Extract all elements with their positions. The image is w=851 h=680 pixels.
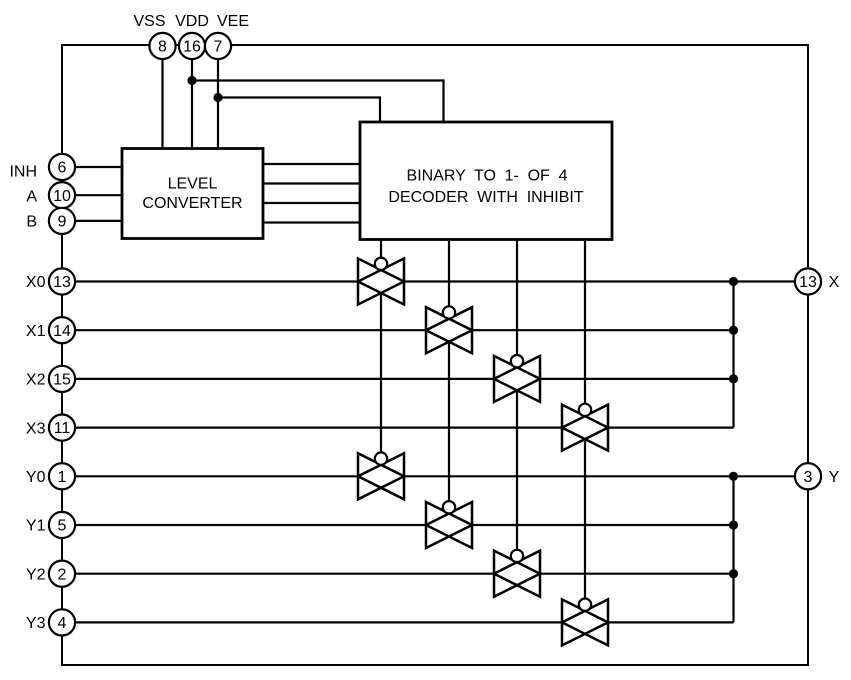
svg-text:X1: X1 <box>26 323 46 340</box>
svg-text:2: 2 <box>58 566 67 583</box>
junction Y bus row Y1 <box>729 520 738 529</box>
junction VEE branch <box>213 93 222 102</box>
wire VDD branch to decoder <box>192 81 444 123</box>
wire decoder control column X0/Y0 <box>380 240 382 488</box>
junction X bus row X1 <box>729 326 738 335</box>
transmission gate X0 <box>358 258 404 305</box>
svg-text:CONVERTER: CONVERTER <box>142 195 242 212</box>
svg-text:9: 9 <box>58 214 67 231</box>
svg-text:A: A <box>26 188 37 205</box>
svg-text:6: 6 <box>58 160 67 177</box>
wire level converter to decoder 3 <box>263 202 360 204</box>
pin 9 B <box>49 208 75 234</box>
wire decoder control column X2/Y2 <box>516 240 518 586</box>
pin 13 X0 <box>49 268 75 294</box>
svg-text:INH: INH <box>9 164 37 181</box>
pin 8 VSS <box>149 33 175 59</box>
wire row X3 <box>75 427 734 429</box>
svg-text:8: 8 <box>158 39 167 56</box>
svg-text:LEVEL: LEVEL <box>168 176 218 193</box>
wire row Y1 <box>75 524 734 526</box>
wire level converter to decoder 1 <box>263 163 360 165</box>
wire row X2 <box>75 378 734 380</box>
wire row Y3 <box>75 621 734 623</box>
svg-text:X3: X3 <box>26 420 46 437</box>
junction X bus row X0 <box>729 277 738 286</box>
wire VEE branch to decoder <box>218 98 380 123</box>
svg-text:BINARY TO 1- OF 4: BINARY TO 1- OF 4 <box>407 168 568 185</box>
level converter block <box>122 149 263 239</box>
pin 5 Y1 <box>49 512 75 538</box>
svg-text:7: 7 <box>214 39 223 56</box>
svg-text:3: 3 <box>804 469 813 486</box>
svg-text:X: X <box>829 274 840 291</box>
svg-text:5: 5 <box>58 518 67 535</box>
binary to 1-of-4 decoder block <box>360 122 612 240</box>
wire A pin10 to level converter <box>75 194 122 196</box>
svg-text:Y2: Y2 <box>26 566 46 583</box>
svg-text:13: 13 <box>799 274 817 291</box>
wire row X1 <box>75 329 734 331</box>
svg-text:VDD: VDD <box>175 13 209 30</box>
svg-text:13: 13 <box>53 274 71 291</box>
transmission gate Y3 <box>562 599 608 646</box>
svg-text:11: 11 <box>54 420 71 437</box>
svg-text:15: 15 <box>53 372 71 389</box>
wire B pin9 to level converter <box>75 220 122 222</box>
svg-text:X2: X2 <box>26 372 46 389</box>
pin 10 A <box>49 182 75 208</box>
svg-text:VSS: VSS <box>133 13 165 30</box>
svg-text:Y: Y <box>829 469 840 486</box>
svg-text:X0: X0 <box>26 274 46 291</box>
pin 11 X3 <box>49 415 75 441</box>
svg-text:Y3: Y3 <box>26 615 46 632</box>
pin 16 VDD <box>179 33 205 59</box>
svg-text:DECODER WITH INHIBIT: DECODER WITH INHIBIT <box>388 189 583 206</box>
transmission gate X3 <box>562 404 608 451</box>
svg-text:B: B <box>26 214 37 231</box>
wire VSS pin8 to level converter <box>161 59 163 149</box>
wire Y output bus <box>732 476 734 622</box>
pin 6 INH <box>49 154 75 180</box>
transmission gate Y1 <box>426 501 472 548</box>
wire row Y0 <box>75 475 795 477</box>
svg-text:VEE: VEE <box>217 13 249 30</box>
wire level converter to decoder 2 <box>263 182 360 184</box>
wire level converter to decoder 4 <box>263 221 360 223</box>
transmission gate Y2 <box>494 550 540 597</box>
pin 7 VEE <box>205 33 231 59</box>
wire decoder control column X3/Y3 <box>584 240 586 634</box>
wire row X0 <box>75 280 795 282</box>
junction Y bus row Y0 <box>729 472 738 481</box>
pin 13 X common <box>795 268 821 294</box>
junction X bus row X2 <box>729 374 738 383</box>
svg-text:1: 1 <box>58 469 67 486</box>
pin 1 Y0 <box>49 463 75 489</box>
svg-text:14: 14 <box>53 323 71 340</box>
svg-text:4: 4 <box>58 615 67 632</box>
chip boundary <box>62 45 808 665</box>
pin 15 X2 <box>49 366 75 392</box>
wire INH pin6 to level converter <box>75 166 122 168</box>
wire X output bus <box>732 282 734 428</box>
transmission gate X1 <box>426 306 472 353</box>
pin 3 Y common <box>795 463 821 489</box>
transmission gate Y0 <box>358 452 404 499</box>
wire decoder control column X1/Y1 <box>448 240 450 537</box>
pin 14 X1 <box>49 317 75 343</box>
wire VEE pin7 to level converter <box>217 59 219 149</box>
transmission gate X2 <box>494 355 540 402</box>
pin 4 Y3 <box>49 609 75 635</box>
svg-text:Y1: Y1 <box>26 518 46 535</box>
svg-text:Y0: Y0 <box>26 469 46 486</box>
junction Y bus row Y2 <box>729 569 738 578</box>
junction VDD branch <box>187 76 196 85</box>
svg-text:16: 16 <box>183 39 201 56</box>
pin 2 Y2 <box>49 561 75 587</box>
wire VDD pin16 to level converter <box>191 59 193 149</box>
svg-text:10: 10 <box>53 188 71 205</box>
wire row Y2 <box>75 573 734 575</box>
